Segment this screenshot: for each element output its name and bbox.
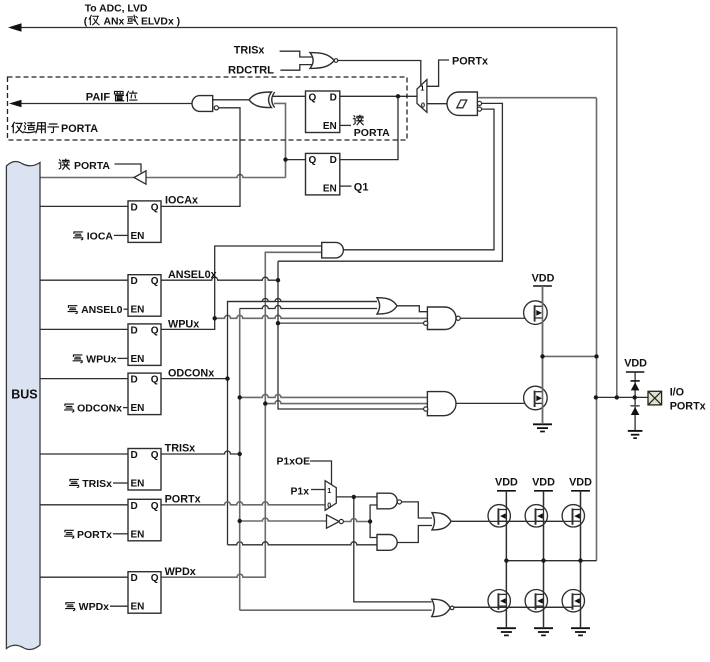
bubble: pull-down OR output: [450, 606, 454, 610]
svg-text:VDD: VDD: [569, 477, 592, 489]
wire: NFET gate line overlay: [454, 606, 573, 608]
wire: write-WPU EN stub: [118, 357, 129, 359]
junction dot 16: [615, 395, 619, 399]
svg-text:Q: Q: [151, 573, 159, 584]
bubble: TRIS invert output: [339, 519, 343, 523]
wire: clamp diode column: [634, 372, 636, 431]
or-gate TRISx/RDCTRL: [310, 53, 334, 69]
transistor: array PFET 2: [525, 505, 547, 527]
wire: PMOS/NMOS rail: [542, 286, 544, 424]
svg-text:WPDx: WPDx: [79, 601, 109, 613]
ground: clamp diode: [628, 430, 643, 432]
junction dot 19: [541, 558, 545, 562]
transistor: array PFET 1: [488, 505, 510, 527]
transistor: NMOS pull-down: [524, 386, 548, 410]
transistor: PMOS pull-up: [524, 301, 548, 325]
wire: XOR output to AND gate: [213, 99, 249, 101]
mux: P1xOE select: [325, 481, 336, 511]
wire: array rail 2: [543, 491, 545, 628]
wire: BUS to IOCA FF D input: [40, 205, 128, 207]
svg-text:PORTx: PORTx: [670, 400, 706, 412]
wire: mux output to read-PORTA FF D: [340, 95, 417, 97]
wire: write-IOCA EN stub: [114, 234, 128, 236]
svg-text:PORTx: PORTx: [77, 529, 112, 541]
transistor: array NFET 3: [562, 590, 584, 612]
junction dot 14: [594, 354, 598, 358]
wire: buffer out branch to NAND lower input: [370, 505, 377, 522]
svg-text:PORTx: PORTx: [165, 493, 201, 505]
svg-text:D: D: [131, 325, 138, 336]
label: write WPUx: [73, 355, 82, 363]
wire: TRISx label to OR gate: [280, 51, 313, 57]
wire: pull-up NAND output to PMOS gate: [460, 317, 534, 319]
buffer: TRIS invert: [327, 515, 340, 528]
wire: junction overlay: [506, 560, 596, 562]
svg-text:ANx: ANx: [104, 16, 125, 27]
wire: schmitt top output to pad node column: [477, 97, 596, 99]
flip-flop: ODCON register: [128, 373, 161, 415]
wire: pad node vertical: [596, 98, 598, 561]
junction dot 13: [540, 354, 544, 358]
junction dot 1: [396, 94, 400, 98]
svg-text:Q: Q: [151, 325, 159, 336]
label: read PORTA FF: [353, 115, 363, 125]
bubble: PAIF AND lower input: [214, 106, 218, 110]
wire: ANSEL0x FF output to hub: [161, 277, 278, 280]
nand-gate: P1x drive high: [377, 493, 397, 509]
wire: hub OR output elbow to NAND: [397, 306, 427, 312]
svg-text:WPUx: WPUx: [168, 318, 199, 330]
wire: PORTx label to mux input 1: [427, 60, 449, 86]
wire: BUS to PORT FF D input: [40, 504, 128, 506]
wire: write-WPD EN stub: [110, 605, 128, 607]
diode: clamp to VDD: [631, 380, 640, 382]
junction dot 10: [238, 519, 242, 523]
svg-text:Q: Q: [151, 375, 159, 386]
wire: write-ODCON EN stub: [123, 407, 128, 409]
svg-text:1: 1: [327, 488, 331, 495]
xor-gate IOC comparator (left-facing): [249, 92, 272, 108]
wire: Q1 FF EN stub: [340, 185, 352, 187]
svg-text:D: D: [131, 276, 138, 287]
bubble: AND ANSEL input: [424, 407, 428, 411]
label: write TRISx: [70, 480, 79, 488]
svg-text:0: 0: [327, 503, 331, 510]
svg-text:IOCAx: IOCAx: [165, 194, 198, 206]
wire: TRISx branch line A to pull-down AND: [240, 394, 428, 397]
wire: TRISx bottom to lower OR input: [240, 609, 432, 611]
svg-text:VDD: VDD: [495, 477, 518, 489]
transistor: array NFET 2: [525, 590, 547, 612]
wire: P1x NAND output elbow to OR: [402, 502, 433, 518]
wire: pull-down AND output to NMOS gate: [456, 402, 535, 404]
or-gate: pull-up drive: [432, 513, 451, 530]
wire: WPUx FF output up to hub: [161, 246, 322, 329]
wire: PORTx FF output to P1x mux 0: [161, 502, 325, 505]
svg-text:IOCA: IOCA: [87, 230, 114, 242]
flip-flop: IOCA register: [128, 201, 161, 243]
ground: array 2: [534, 627, 553, 629]
junction dot 6: [225, 376, 229, 380]
svg-text:Q: Q: [309, 155, 317, 166]
wire: ODCONx FF output to hub: [161, 378, 228, 380]
svg-text:VDD: VDD: [532, 273, 555, 285]
svg-text:EN: EN: [131, 479, 145, 490]
svg-text:PORTA: PORTA: [354, 127, 390, 139]
svg-text:To ADC, LVD: To ADC, LVD: [85, 4, 148, 15]
arrow: PAIF arrowhead: [9, 100, 22, 108]
wire: schmitt enable1 to ANSEL line: [278, 103, 502, 261]
ground: array 1: [497, 627, 516, 629]
wire: WPUx branch to pull-up NAND: [215, 315, 428, 318]
svg-text:ANSEL0x: ANSEL0x: [168, 269, 217, 281]
wire: Q1 FF Q output to vertical: [286, 159, 306, 161]
or-gate: ODCON/TRIS combine: [377, 298, 397, 314]
transistor: array NFET 1: [488, 590, 510, 612]
wire: ODCON branch y=301.5 hops: [228, 299, 378, 302]
and-gate: WPU/WPD combine: [322, 242, 344, 258]
svg-text:EN: EN: [131, 354, 145, 365]
wire: TRISx tap to P1x buffer: [240, 518, 327, 521]
wire: write-TRIS EN stub: [113, 482, 128, 484]
svg-text:EN: EN: [131, 403, 145, 414]
wire: array rail 1: [505, 491, 507, 628]
wire: ODCON branch to P1x AND input: [228, 542, 378, 545]
junction dot 17: [633, 395, 637, 399]
wire: array rail overlay 3: [580, 491, 582, 628]
svg-text:D: D: [330, 93, 337, 104]
bubble: OR output: [334, 59, 338, 63]
wire: RDCTRL label to OR gate: [280, 65, 313, 71]
and-gate PAIF (left-facing): [192, 96, 213, 112]
wire: PMOS/NMOS rail overlay: [542, 286, 544, 424]
wire: P1x data vertical to lower OR: [354, 497, 432, 602]
wire: array rail overlay 1: [505, 491, 507, 628]
bubble: P1x NAND output: [397, 500, 401, 504]
wire: read-PORTA FF Q to XOR input: [273, 95, 306, 97]
wire: TRISx branch to ODCON OR: [240, 306, 377, 309]
svg-text:EN: EN: [323, 183, 337, 194]
wire: ODCON vertical down to P1x AND: [227, 379, 229, 545]
wire: buffer output line: [343, 519, 370, 522]
wire: To ADC/LVD horizontal line: [21, 27, 617, 29]
wire: OR output to mux select: [338, 61, 421, 86]
wire: AND output to PAIF arrow: [21, 103, 192, 105]
junction dot 9: [238, 452, 242, 456]
svg-text:EN: EN: [323, 121, 337, 132]
VDD bar for PMOS: [533, 285, 552, 287]
svg-text:D: D: [131, 375, 138, 386]
bubble: NAND ANSEL input: [424, 321, 428, 325]
ground: array 3: [571, 627, 590, 629]
svg-text:EN: EN: [131, 529, 145, 540]
svg-text:ODCONx: ODCONx: [168, 368, 214, 380]
BUS bar: [6, 162, 40, 650]
junction dot 3: [276, 278, 280, 282]
wire: Q1 vertical to XOR input and read line: [274, 103, 286, 177]
svg-text:P1x: P1x: [291, 487, 310, 498]
svg-text:PORTx: PORTx: [452, 56, 488, 68]
svg-text:EN: EN: [131, 602, 145, 613]
svg-text:D: D: [131, 501, 138, 512]
svg-text:PORTA: PORTA: [61, 123, 98, 135]
VDD bar array 3: [571, 490, 590, 492]
svg-text:1: 1: [420, 83, 424, 92]
flip-flop: Q1 latch: [306, 153, 340, 195]
svg-text:Q: Q: [151, 276, 159, 287]
nand-gate: pull-up control: [427, 307, 456, 330]
svg-text:WPUx: WPUx: [86, 353, 116, 365]
svg-text:VDD: VDD: [624, 358, 647, 370]
mux: port read select: [417, 80, 427, 113]
svg-text:VDD: VDD: [532, 477, 555, 489]
svg-text:PORTA: PORTA: [74, 160, 110, 172]
svg-text:Q: Q: [151, 450, 159, 461]
arrow: To ADC/LVD left arrowhead: [8, 23, 22, 32]
flip-flop: read PORTA latch: [306, 91, 340, 133]
and-gate: P1x drive low: [377, 535, 397, 551]
svg-text:WPDx: WPDx: [165, 566, 196, 578]
wire: TRISx vertical: [239, 309, 241, 611]
wire: pull-down OR output to NFET gates: [454, 606, 573, 608]
wire: buffer out branch to AND upper input: [370, 522, 377, 538]
ground: NMOS source: [533, 423, 552, 425]
junction dot 15: [594, 395, 598, 399]
svg-text:ANSEL0: ANSEL0: [81, 304, 123, 316]
svg-text:ODCONx: ODCONx: [77, 403, 122, 415]
wire: P1xOE label to mux select: [310, 461, 332, 485]
diode: clamp to VSS: [631, 405, 640, 407]
label: read PORTA left: [59, 159, 69, 169]
svg-text:PAIF: PAIF: [86, 92, 111, 104]
VDD bar array 2: [534, 490, 553, 492]
junction dot 7: [238, 395, 242, 399]
wire: BUS to WPU FF D input: [40, 328, 128, 330]
wire: ODCON vertical up to OR: [228, 302, 378, 379]
label: write PORTx: [65, 530, 74, 538]
svg-text:ELVDx ): ELVDx ): [141, 16, 180, 27]
wire: read-PORTA FF EN stub: [340, 124, 351, 126]
svg-text:TRISx: TRISx: [234, 45, 265, 57]
dashed box: PORTA-only region: [8, 77, 408, 140]
junction dot 8: [263, 401, 267, 405]
wire: WPDx FF output up to hub: [161, 252, 322, 577]
wire: I/O pad horizontal line: [596, 396, 648, 398]
wire: BUS to ANSEL FF D input: [40, 279, 128, 281]
flip-flop: WPD register: [128, 572, 161, 614]
wire: PFET gate line overlay: [451, 520, 572, 522]
flip-flop: TRIS register: [128, 449, 161, 491]
svg-text:RDCTRL: RDCTRL: [228, 65, 274, 77]
junction dot 4: [213, 316, 217, 320]
svg-text:D: D: [131, 450, 138, 461]
or-gate: pull-down drive: [432, 599, 451, 616]
svg-text:(: (: [84, 16, 88, 27]
wire: PMOS/NMOS junction to pad column: [543, 355, 597, 357]
svg-text:D: D: [131, 202, 138, 213]
wire: schmitt enable2 to AND output: [343, 109, 494, 250]
svg-text:TRISx: TRISx: [165, 443, 196, 455]
svg-text:Q: Q: [309, 93, 317, 104]
wire: buffer output to BUS: [40, 177, 134, 179]
wire: lower transistor junction line: [506, 560, 596, 562]
label: write ANSEL0: [68, 306, 77, 314]
transistor: array PFET 3: [562, 505, 584, 527]
wire: P1x AND output elbow to OR: [397, 526, 432, 543]
wire: ANSEL branch to pull-up NAND bubble: [278, 322, 424, 324]
svg-text:P1xOE: P1xOE: [277, 457, 311, 468]
svg-text:D: D: [330, 155, 337, 166]
svg-text:EN: EN: [131, 305, 145, 316]
svg-text:Q: Q: [151, 202, 159, 213]
wire: branch down to Q1 FF D input: [340, 96, 398, 159]
label: PORTA only: [12, 122, 23, 132]
wire: right vertical from top line down to I/O pad node: [616, 28, 618, 398]
label: write IOCA: [74, 232, 83, 240]
junction dot 11: [352, 495, 356, 499]
svg-text:TRISx: TRISx: [82, 478, 112, 490]
wire: WPDx branch to pull-down AND: [265, 401, 427, 404]
label: write WPDx: [66, 603, 75, 611]
VDD bar array 1: [497, 490, 516, 492]
bubble: NAND output: [456, 316, 460, 320]
svg-text:I/O: I/O: [670, 387, 684, 399]
svg-text:0: 0: [421, 100, 425, 109]
wire: read PORTA enable elbow: [115, 164, 142, 173]
label: write ODCONx: [65, 404, 74, 412]
wire: read PORTA horizontal line: [146, 175, 286, 178]
wire: IOCAx FF output up to AND bubble input: [161, 108, 240, 207]
junction dot 2: [283, 157, 287, 161]
wire: schmitt output to mux input 0: [427, 103, 448, 105]
schmitt trigger input buffer: [447, 92, 477, 115]
svg-text:EN: EN: [131, 231, 145, 242]
junction dot 12: [368, 519, 372, 523]
wire: BUS to TRIS FF D input: [40, 453, 128, 455]
bubble: schmitt enable1: [477, 101, 481, 105]
bubble: schmitt enable2: [477, 107, 481, 111]
junction dot 5: [276, 321, 280, 325]
wire: write-ANSEL EN stub: [124, 308, 129, 310]
svg-text:D: D: [131, 573, 138, 584]
and-gate: pull-down control: [427, 392, 456, 416]
tri-state buffer: read PORTA to BUS: [134, 171, 146, 184]
flip-flop: ANSEL register: [128, 275, 161, 317]
svg-text:Q: Q: [151, 501, 159, 512]
wire: array rail 3: [580, 491, 582, 628]
VDD bar for clamp diode: [626, 371, 644, 373]
wire: P1x mux output to NAND: [336, 496, 377, 498]
wire: pull-up OR output to PFET gates: [451, 520, 572, 522]
I/O pad: [648, 391, 662, 405]
junction dot 18: [504, 558, 508, 562]
wire: ANSEL vertical with branches: [278, 261, 424, 409]
wire: write-PORT EN stub: [113, 533, 128, 535]
wire: BUS to ODCON FF D input: [40, 378, 128, 380]
wire: P1x label to mux input 1: [311, 489, 325, 491]
svg-text:BUS: BUS: [11, 388, 37, 402]
junction dot 20: [578, 558, 582, 562]
wire: array rail overlay 2: [543, 491, 545, 628]
wire: BUS to WPD FF D input: [40, 576, 128, 578]
svg-text:Q1: Q1: [354, 182, 369, 194]
flip-flop: WPU register: [128, 324, 161, 366]
flip-flop: PORT register: [128, 499, 161, 541]
wire: TRISx FF output to vertical: [161, 451, 240, 454]
